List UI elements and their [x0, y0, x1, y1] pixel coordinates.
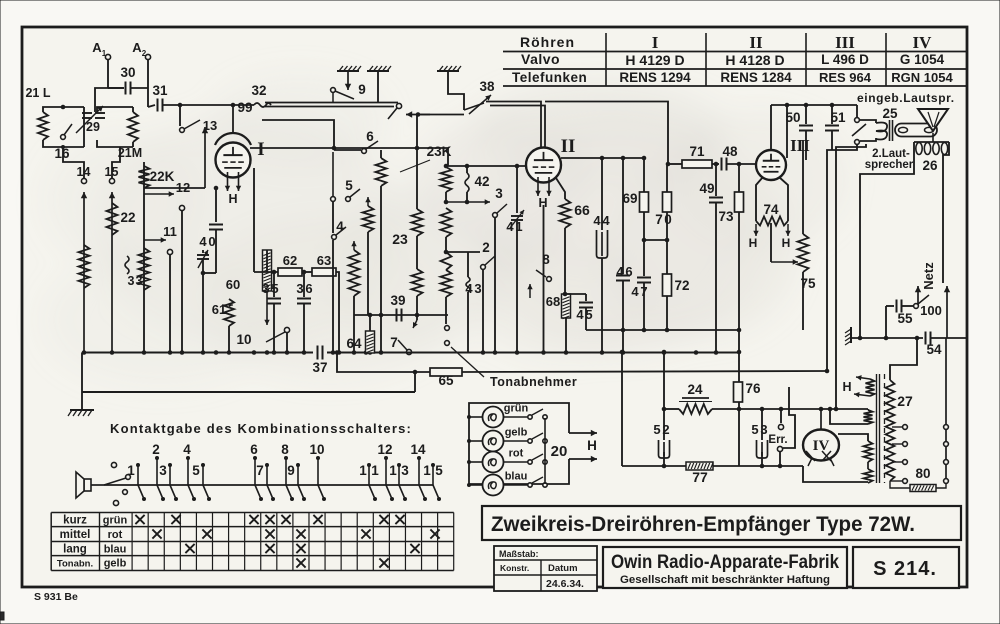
svg-text:blau: blau — [505, 471, 528, 483]
svg-text:71: 71 — [689, 144, 705, 159]
svg-text:0: 0 — [664, 212, 672, 227]
svg-text:H: H — [842, 380, 851, 394]
svg-text:Zweikreis-Dreiröhren-Empfänger: Zweikreis-Dreiröhren-Empfänger Type 72W. — [491, 513, 915, 536]
svg-text:25: 25 — [882, 106, 898, 121]
svg-text:kurz: kurz — [63, 515, 87, 527]
svg-text:38: 38 — [479, 79, 495, 94]
svg-text:3: 3 — [474, 281, 481, 296]
svg-text:20: 20 — [551, 443, 568, 460]
svg-text:2: 2 — [152, 442, 160, 457]
svg-text:3: 3 — [262, 281, 269, 296]
svg-text:31: 31 — [152, 83, 168, 98]
svg-text:7: 7 — [640, 284, 647, 299]
svg-text:6: 6 — [250, 442, 258, 457]
svg-text:S 931 Be: S 931 Be — [34, 591, 78, 603]
svg-text:2: 2 — [482, 240, 490, 255]
svg-text:gelb: gelb — [104, 558, 127, 570]
svg-text:III: III — [790, 136, 810, 155]
svg-text:mittel: mittel — [60, 529, 91, 541]
svg-text:54: 54 — [926, 342, 942, 357]
svg-text:RES 964: RES 964 — [819, 70, 872, 85]
svg-text:61: 61 — [212, 302, 226, 317]
svg-text:99: 99 — [237, 100, 252, 115]
svg-text:4: 4 — [84, 165, 91, 179]
svg-text:S 214.: S 214. — [873, 558, 937, 580]
svg-text:Valvo: Valvo — [521, 51, 560, 67]
svg-text:32: 32 — [251, 83, 266, 98]
svg-text:23: 23 — [392, 231, 408, 247]
svg-text:2: 2 — [142, 49, 147, 58]
svg-text:I: I — [652, 33, 659, 52]
svg-text:4: 4 — [616, 264, 624, 279]
svg-text:42: 42 — [474, 174, 489, 189]
svg-text:rot: rot — [509, 448, 524, 460]
svg-text:1: 1 — [359, 463, 367, 478]
svg-text:48: 48 — [722, 144, 738, 159]
svg-text:7: 7 — [655, 212, 663, 227]
svg-text:6: 6 — [625, 264, 632, 279]
svg-text:76: 76 — [745, 381, 761, 396]
svg-text:5: 5 — [271, 281, 278, 296]
svg-text:Konstr.: Konstr. — [500, 563, 529, 573]
svg-text:60: 60 — [226, 277, 240, 292]
svg-text:27: 27 — [897, 393, 913, 409]
svg-text:24.6.34.: 24.6.34. — [546, 578, 584, 590]
svg-text:4: 4 — [602, 213, 610, 228]
svg-text:H 4129 D: H 4129 D — [625, 52, 684, 68]
svg-text:1: 1 — [423, 463, 431, 478]
svg-text:5: 5 — [345, 178, 353, 193]
svg-text:grün: grün — [504, 403, 529, 415]
svg-text:Tonabnehmer: Tonabnehmer — [490, 375, 577, 389]
svg-text:Röhren: Röhren — [520, 34, 575, 50]
svg-text:63: 63 — [317, 253, 331, 268]
svg-text:0: 0 — [208, 234, 215, 249]
svg-text:7: 7 — [256, 463, 264, 478]
svg-text:3: 3 — [128, 274, 135, 288]
svg-text:24: 24 — [687, 382, 703, 397]
svg-text:8: 8 — [542, 252, 550, 267]
svg-text:Gesellschaft mit beschränkter: Gesellschaft mit beschränkter Haftung — [620, 574, 830, 586]
svg-text:RENS 1284: RENS 1284 — [720, 70, 792, 85]
svg-text:39: 39 — [390, 293, 405, 308]
svg-text:grün: grün — [103, 515, 128, 527]
svg-text:9: 9 — [287, 463, 295, 478]
svg-text:73: 73 — [718, 209, 734, 224]
svg-text:4: 4 — [631, 284, 639, 299]
svg-text:Telefunken: Telefunken — [512, 70, 587, 85]
svg-text:8: 8 — [281, 442, 289, 457]
svg-text:21M: 21M — [118, 146, 142, 160]
svg-text:L 496 D: L 496 D — [821, 52, 869, 67]
svg-text:H 4128 D: H 4128 D — [725, 52, 784, 68]
svg-text:Maßstab:: Maßstab: — [499, 549, 539, 559]
svg-text:74: 74 — [763, 202, 779, 217]
svg-text:65: 65 — [438, 373, 454, 388]
svg-text:4: 4 — [183, 442, 191, 457]
svg-text:100: 100 — [920, 303, 942, 318]
svg-text:10: 10 — [309, 442, 324, 457]
svg-text:14: 14 — [410, 442, 426, 457]
svg-text:12: 12 — [377, 442, 392, 457]
svg-text:72: 72 — [674, 278, 689, 293]
svg-text:H: H — [749, 236, 758, 250]
svg-text:55: 55 — [897, 311, 913, 326]
svg-text:77: 77 — [692, 469, 708, 485]
svg-text:29: 29 — [86, 120, 100, 134]
svg-text:68: 68 — [546, 294, 560, 309]
svg-text:5: 5 — [192, 463, 200, 478]
svg-text:1: 1 — [105, 165, 112, 179]
svg-text:7: 7 — [390, 335, 398, 350]
svg-text:Tonabn.: Tonabn. — [57, 559, 93, 570]
svg-text:I: I — [257, 139, 264, 160]
svg-text:IV: IV — [913, 33, 933, 52]
svg-text:4: 4 — [593, 213, 601, 228]
svg-text:II: II — [561, 136, 576, 157]
svg-text:22K: 22K — [150, 169, 175, 184]
svg-text:3: 3 — [495, 186, 503, 201]
svg-text:II: II — [749, 33, 763, 52]
svg-text:37: 37 — [312, 360, 327, 375]
svg-text:Err.: Err. — [768, 434, 787, 446]
svg-text:H: H — [587, 438, 597, 453]
svg-text:64: 64 — [346, 336, 362, 351]
svg-text:IV: IV — [813, 438, 830, 454]
svg-text:69: 69 — [622, 191, 637, 206]
svg-text:49: 49 — [699, 181, 714, 196]
svg-text:Owin Radio-Apparate-Fabrik: Owin Radio-Apparate-Fabrik — [611, 552, 839, 573]
svg-text:21 L: 21 L — [25, 86, 50, 100]
svg-text:1: 1 — [127, 463, 135, 478]
svg-text:1: 1 — [371, 463, 379, 478]
svg-text:5: 5 — [653, 422, 660, 437]
svg-text:5: 5 — [112, 165, 119, 179]
svg-text:RGN 1054: RGN 1054 — [891, 70, 953, 85]
svg-text:62: 62 — [283, 253, 297, 268]
svg-text:RENS 1294: RENS 1294 — [619, 70, 691, 85]
svg-text:Datum: Datum — [548, 563, 578, 574]
svg-text:6: 6 — [366, 129, 374, 144]
svg-text:sprecher: sprecher — [865, 159, 914, 171]
svg-text:3: 3 — [136, 274, 143, 288]
svg-text:80: 80 — [915, 466, 930, 481]
svg-text:lang: lang — [63, 544, 87, 556]
svg-text:H: H — [782, 236, 791, 250]
svg-text:12: 12 — [176, 180, 190, 195]
svg-text:3: 3 — [296, 281, 303, 296]
svg-text:Netz: Netz — [921, 262, 936, 290]
svg-text:4: 4 — [576, 307, 584, 322]
svg-text:1: 1 — [102, 49, 107, 58]
svg-text:1: 1 — [77, 165, 84, 179]
svg-text:III: III — [835, 33, 855, 52]
svg-text:66: 66 — [574, 202, 590, 218]
svg-text:eingeb.Lautspr.: eingeb.Lautspr. — [857, 91, 955, 105]
svg-text:26: 26 — [922, 158, 938, 173]
svg-text:3: 3 — [159, 463, 167, 478]
svg-text:Kontaktgabe des Kombinationssc: Kontaktgabe des Kombinationsschalters: — [110, 421, 412, 436]
svg-text:50: 50 — [785, 110, 800, 125]
svg-text:rot: rot — [108, 529, 123, 541]
svg-text:30: 30 — [120, 65, 135, 80]
svg-text:1: 1 — [389, 463, 397, 478]
svg-text:5: 5 — [435, 463, 443, 478]
svg-text:4: 4 — [199, 234, 207, 249]
svg-text:blau: blau — [104, 544, 127, 556]
svg-text:H: H — [228, 192, 237, 206]
svg-text:22: 22 — [120, 210, 135, 225]
svg-text:11: 11 — [163, 224, 177, 239]
svg-text:G 1054: G 1054 — [900, 52, 945, 67]
svg-text:9: 9 — [358, 82, 366, 97]
svg-text:5: 5 — [751, 422, 758, 437]
svg-text:6: 6 — [305, 281, 312, 296]
svg-text:gelb: gelb — [505, 427, 528, 439]
svg-text:23K: 23K — [427, 144, 452, 159]
svg-text:3: 3 — [401, 463, 409, 478]
svg-text:10: 10 — [236, 332, 251, 347]
